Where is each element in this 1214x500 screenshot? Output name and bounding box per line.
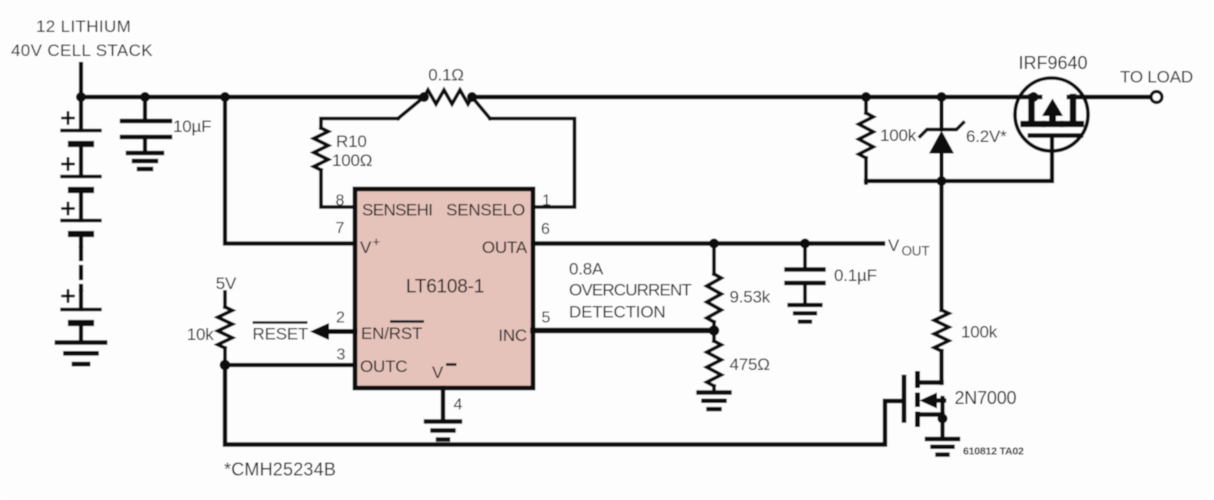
svg-text:INC: INC: [498, 326, 527, 345]
svg-text:6.2V*: 6.2V*: [966, 127, 1007, 146]
svg-text:SENSELO: SENSELO: [446, 201, 525, 220]
svg-text:5: 5: [542, 310, 551, 327]
svg-text:2: 2: [336, 310, 345, 327]
svg-text:3: 3: [337, 347, 346, 364]
svg-text:TO LOAD: TO LOAD: [1120, 68, 1193, 87]
svg-text:OUT: OUT: [902, 244, 930, 259]
svg-text:+: +: [373, 234, 381, 249]
svg-text:0.8A: 0.8A: [569, 260, 604, 279]
svg-text:V: V: [432, 363, 444, 382]
svg-text:SENSEHI: SENSEHI: [362, 201, 432, 220]
svg-text:LT6108-1: LT6108-1: [406, 277, 484, 298]
svg-text:10µF: 10µF: [173, 117, 211, 136]
svg-text:100k: 100k: [961, 323, 998, 342]
svg-text:IRF9640: IRF9640: [1018, 53, 1087, 73]
svg-text:9.53k: 9.53k: [730, 288, 771, 307]
svg-text:475Ω: 475Ω: [730, 355, 770, 374]
svg-text:0.1Ω: 0.1Ω: [428, 66, 464, 85]
svg-text:*CMH25234B: *CMH25234B: [224, 460, 336, 480]
svg-text:OVERCURRENT: OVERCURRENT: [569, 281, 691, 300]
svg-text:RESET: RESET: [253, 325, 309, 344]
svg-text:10k: 10k: [187, 325, 215, 344]
svg-text:8: 8: [336, 193, 345, 210]
svg-text:40V CELL STACK: 40V CELL STACK: [11, 41, 153, 60]
svg-text:OUTA: OUTA: [482, 238, 528, 257]
svg-text:0.1µF: 0.1µF: [834, 266, 877, 285]
svg-text:DETECTION: DETECTION: [569, 303, 665, 322]
svg-text:5V: 5V: [216, 274, 237, 293]
svg-text:4: 4: [454, 397, 463, 414]
svg-text:7: 7: [336, 220, 345, 237]
svg-text:EN/RST: EN/RST: [361, 324, 422, 343]
svg-text:100Ω: 100Ω: [332, 151, 372, 170]
svg-text:V: V: [360, 238, 372, 257]
svg-text:6: 6: [541, 221, 550, 238]
svg-text:2N7000: 2N7000: [955, 388, 1017, 408]
svg-text:OUTC: OUTC: [360, 357, 407, 376]
svg-text:R10: R10: [336, 132, 367, 151]
svg-text:100k: 100k: [880, 126, 917, 145]
svg-text:12 LITHIUM: 12 LITHIUM: [36, 17, 131, 36]
svg-text:610812 TA02: 610812 TA02: [963, 446, 1024, 458]
svg-text:1: 1: [542, 193, 551, 210]
svg-text:V: V: [888, 236, 900, 255]
